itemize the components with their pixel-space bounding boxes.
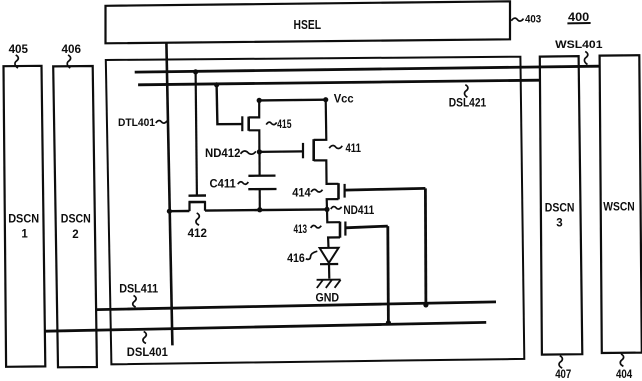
svg-text:3: 3 <box>556 218 562 230</box>
svg-text:Vcc: Vcc <box>334 92 354 106</box>
svg-text:ND412: ND412 <box>205 148 240 160</box>
svg-text:400: 400 <box>568 10 590 24</box>
svg-text:DTL401: DTL401 <box>118 117 155 129</box>
svg-text:413: 413 <box>294 224 308 236</box>
svg-text:414: 414 <box>292 188 311 200</box>
svg-text:407: 407 <box>555 369 571 381</box>
svg-text:415: 415 <box>277 119 292 131</box>
svg-text:403: 403 <box>525 13 541 25</box>
svg-text:HSEL: HSEL <box>294 18 322 32</box>
svg-text:DSL401: DSL401 <box>127 347 169 359</box>
svg-text:416: 416 <box>287 253 305 265</box>
svg-text:WSCN: WSCN <box>603 202 634 214</box>
svg-text:C411: C411 <box>210 179 237 191</box>
svg-text:404: 404 <box>616 369 633 381</box>
svg-text:412: 412 <box>188 228 207 240</box>
svg-text:2: 2 <box>72 229 78 241</box>
svg-text:DSL421: DSL421 <box>449 96 487 110</box>
svg-text:1: 1 <box>21 229 28 241</box>
svg-text:ND411: ND411 <box>343 205 374 217</box>
svg-text:411: 411 <box>346 143 362 155</box>
svg-text:405: 405 <box>9 42 29 56</box>
svg-text:DSCN: DSCN <box>8 214 39 226</box>
svg-text:DSL411: DSL411 <box>119 283 159 295</box>
svg-text:406: 406 <box>62 42 82 56</box>
svg-text:DSCN: DSCN <box>61 214 91 226</box>
svg-text:GND: GND <box>316 291 340 305</box>
svg-text:WSL401: WSL401 <box>555 39 602 51</box>
svg-text:DSCN: DSCN <box>545 203 575 215</box>
